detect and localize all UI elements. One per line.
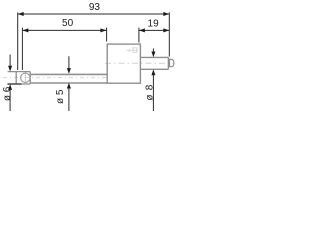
wire extension line left 19	[138, 28, 140, 43]
node dimension 50	[22, 18, 106, 33]
node end nib	[170, 59, 174, 66]
wire extension line left 93	[17, 12, 19, 70]
wire ø6 bottom extension (dark)	[7, 83, 21, 85]
wire extension line right 50	[106, 28, 108, 42]
node rod-centerline	[3, 77, 109, 79]
svg-text:ø 6: ø 6	[2, 86, 13, 101]
wire rod ø5 section lines	[30, 74, 107, 83]
node dimension 93	[18, 2, 170, 16]
wire ø8 stub outline	[140, 57, 168, 69]
node dimension 19	[139, 19, 169, 33]
node right-centerline	[105, 62, 175, 64]
svg-text:50: 50	[62, 18, 74, 29]
node cross-hole circle	[21, 73, 30, 82]
node set-screw detail	[126, 48, 138, 53]
node dimension ø6	[2, 55, 13, 111]
node dimension ø8	[145, 48, 156, 111]
svg-text:19: 19	[148, 19, 160, 30]
wire extension line left 50	[21, 28, 23, 70]
wire extension line right 93/19	[168, 12, 170, 56]
svg-text:ø 8: ø 8	[145, 84, 156, 101]
wire rod-tip outline (ø6 segment)	[8, 72, 31, 84]
node dimension ø5	[55, 56, 71, 111]
svg-text:ø 5: ø 5	[55, 89, 66, 104]
node hole-axis	[24, 72, 26, 84]
svg-text:93: 93	[89, 2, 101, 13]
node handle block	[107, 44, 140, 83]
